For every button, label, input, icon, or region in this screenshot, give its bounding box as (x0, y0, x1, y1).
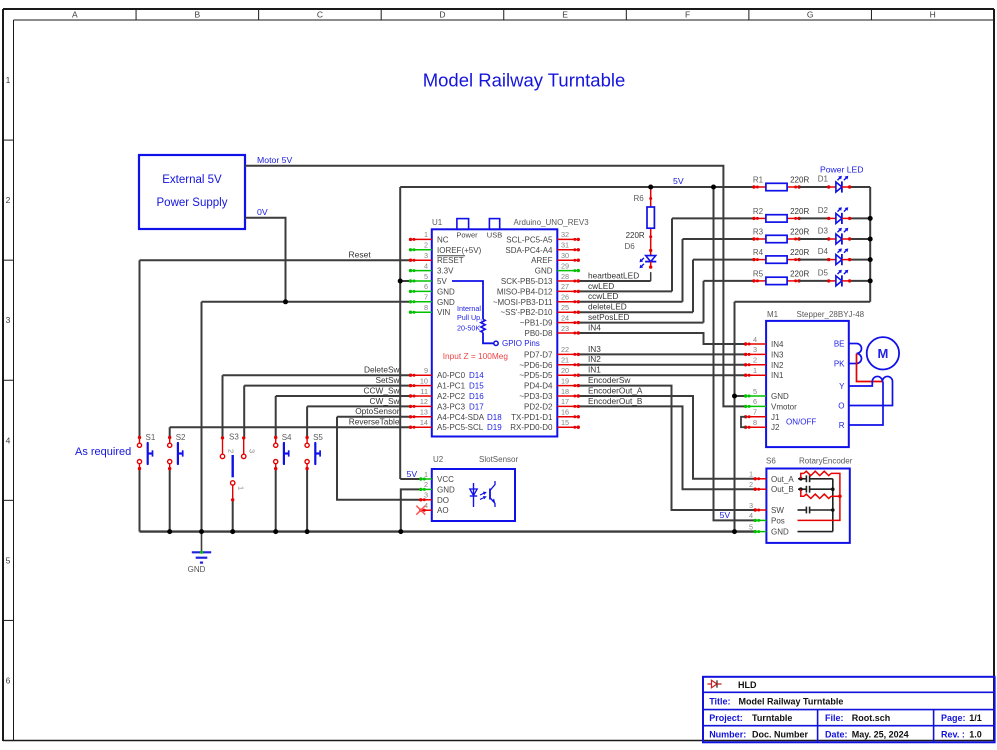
svg-text:IN3: IN3 (771, 350, 784, 359)
svg-text:S4: S4 (282, 433, 292, 442)
svg-text:H: H (930, 10, 936, 20)
svg-text:HLD: HLD (738, 680, 757, 690)
svg-text:Doc. Number: Doc. Number (752, 729, 809, 739)
svg-text:RX-PD0-D0: RX-PD0-D0 (510, 423, 553, 432)
svg-text:SCL-PC5-A5: SCL-PC5-A5 (506, 235, 553, 244)
svg-text:5: 5 (749, 522, 753, 531)
svg-text:R5: R5 (753, 269, 764, 278)
svg-text:A0-PC0: A0-PC0 (437, 371, 466, 380)
svg-text:AREF: AREF (531, 256, 552, 265)
svg-text:GND: GND (535, 267, 553, 276)
svg-text:D5: D5 (818, 268, 829, 277)
svg-text:9: 9 (424, 366, 428, 375)
svg-text:GND: GND (437, 298, 455, 307)
svg-text:S2: S2 (176, 433, 186, 442)
svg-text:A1-PC1: A1-PC1 (437, 382, 466, 391)
svg-text:SCK-PB5-D13: SCK-PB5-D13 (501, 277, 553, 286)
svg-text:D16: D16 (469, 392, 484, 401)
svg-text:~PB1-D9: ~PB1-D9 (520, 319, 553, 328)
svg-text:EncoderOut_A: EncoderOut_A (588, 385, 643, 395)
svg-text:cwLED: cwLED (588, 281, 614, 291)
svg-text:12: 12 (420, 397, 428, 406)
svg-text:2: 2 (424, 241, 428, 250)
svg-text:D1: D1 (818, 175, 829, 184)
svg-text:R2: R2 (753, 207, 764, 216)
svg-text:ON/OFF: ON/OFF (786, 418, 816, 427)
svg-text:IOREF(+5V): IOREF(+5V) (437, 246, 482, 255)
svg-text:Out_B: Out_B (771, 485, 794, 494)
svg-text:Power LED: Power LED (820, 165, 863, 175)
svg-text:18: 18 (561, 387, 569, 396)
svg-text:1: 1 (237, 486, 246, 490)
svg-text:D15: D15 (469, 382, 484, 391)
svg-text:F: F (685, 10, 690, 20)
svg-text:~MOSI-PB3-D11: ~MOSI-PB3-D11 (493, 298, 553, 307)
svg-text:A4-PC4-SDA: A4-PC4-SDA (437, 413, 485, 422)
svg-text:External 5V: External 5V (162, 174, 222, 186)
svg-text:OptoSensor: OptoSensor (355, 406, 400, 416)
svg-text:File:: File: (825, 713, 844, 723)
svg-text:3: 3 (248, 449, 257, 453)
svg-text:IN1: IN1 (771, 371, 784, 380)
svg-text:VCC: VCC (437, 475, 454, 484)
svg-text:4: 4 (749, 511, 753, 520)
svg-text:DO: DO (437, 496, 449, 505)
svg-text:220R: 220R (790, 207, 809, 216)
svg-text:6: 6 (424, 282, 428, 291)
svg-text:CCW_Sw: CCW_Sw (364, 385, 401, 395)
svg-text:220R: 220R (790, 269, 809, 278)
svg-text:S5: S5 (313, 433, 323, 442)
svg-text:4: 4 (753, 335, 757, 344)
svg-text:Date:: Date: (825, 729, 848, 739)
svg-text:PD2-D2: PD2-D2 (524, 402, 553, 411)
svg-text:Turntable: Turntable (752, 713, 792, 723)
svg-text:Pos: Pos (771, 516, 785, 525)
svg-text:GND: GND (771, 392, 789, 401)
svg-text:Title:: Title: (709, 697, 730, 707)
svg-text:2: 2 (227, 449, 236, 453)
svg-text:VIN: VIN (437, 308, 451, 317)
svg-text:22: 22 (561, 345, 569, 354)
svg-text:GND: GND (188, 565, 206, 574)
svg-text:BE: BE (834, 340, 845, 349)
svg-text:3.3V: 3.3V (437, 267, 454, 276)
svg-text:14: 14 (420, 418, 428, 427)
svg-text:C: C (317, 10, 323, 20)
svg-text:0V: 0V (257, 207, 268, 217)
svg-text:PD4-D4: PD4-D4 (524, 382, 553, 391)
svg-text:6: 6 (6, 675, 11, 685)
svg-text:3: 3 (749, 501, 753, 510)
svg-text:D14: D14 (469, 371, 484, 380)
svg-text:5V: 5V (673, 176, 684, 186)
svg-text:R: R (839, 421, 845, 430)
svg-text:D17: D17 (469, 402, 484, 411)
svg-text:SW: SW (771, 506, 784, 515)
svg-text:Page:: Page: (941, 713, 966, 723)
svg-text:4: 4 (424, 261, 428, 270)
svg-text:S1: S1 (146, 433, 156, 442)
svg-text:R4: R4 (753, 248, 764, 257)
svg-text:4: 4 (6, 435, 11, 445)
svg-text:G: G (807, 10, 814, 20)
svg-text:DeleteSw: DeleteSw (364, 365, 401, 375)
svg-text:Reset: Reset (349, 250, 372, 260)
svg-text:5: 5 (424, 272, 428, 281)
svg-text:5: 5 (753, 387, 757, 396)
svg-text:A5-PC5-SCL: A5-PC5-SCL (437, 423, 484, 432)
svg-text:M1: M1 (767, 310, 779, 319)
svg-text:D2: D2 (818, 206, 829, 215)
svg-text:A: A (72, 10, 78, 20)
svg-text:3: 3 (6, 315, 11, 325)
svg-text:E: E (562, 10, 568, 20)
svg-text:Stepper_28BYJ-48: Stepper_28BYJ-48 (797, 310, 865, 319)
svg-text:19: 19 (561, 376, 569, 385)
svg-text:A3-PC3: A3-PC3 (437, 402, 466, 411)
svg-text:7: 7 (424, 293, 428, 302)
svg-text:IN2: IN2 (588, 354, 601, 364)
svg-text:27: 27 (561, 282, 569, 291)
svg-text:8: 8 (424, 303, 428, 312)
svg-text:PK: PK (834, 360, 845, 369)
svg-text:May. 25, 2024: May. 25, 2024 (852, 729, 909, 739)
svg-text:SlotSensor: SlotSensor (479, 455, 518, 464)
svg-text:IN4: IN4 (771, 340, 784, 349)
svg-text:15: 15 (561, 418, 569, 427)
svg-text:PB0-D8: PB0-D8 (524, 329, 553, 338)
svg-text:S3: S3 (229, 433, 239, 442)
svg-text:RotaryEncoder: RotaryEncoder (799, 457, 853, 466)
svg-text:5V: 5V (407, 469, 418, 479)
svg-text:1.0: 1.0 (969, 729, 982, 739)
svg-text:MISO-PB4-D12: MISO-PB4-D12 (497, 287, 553, 296)
svg-text:13: 13 (420, 408, 428, 417)
svg-text:Number:: Number: (709, 729, 746, 739)
svg-text:RESET: RESET (437, 256, 464, 265)
svg-text:IN3: IN3 (588, 344, 601, 354)
svg-text:Power: Power (456, 231, 478, 240)
svg-text:24: 24 (561, 313, 569, 322)
svg-text:SetSw: SetSw (376, 375, 401, 385)
svg-text:1: 1 (424, 230, 428, 239)
svg-text:Motor 5V: Motor 5V (257, 155, 292, 165)
svg-text:29: 29 (561, 261, 569, 270)
svg-text:D: D (439, 10, 445, 20)
svg-text:USB: USB (487, 231, 502, 240)
svg-text:Project:: Project: (709, 713, 743, 723)
svg-text:S6: S6 (766, 457, 776, 466)
svg-text:R1: R1 (753, 176, 764, 185)
svg-text:GND: GND (771, 528, 789, 537)
svg-text:10: 10 (420, 376, 428, 385)
svg-text:2: 2 (424, 480, 428, 489)
svg-text:Out_A: Out_A (771, 475, 794, 484)
svg-text:U1: U1 (432, 218, 443, 227)
svg-text:21: 21 (561, 356, 569, 365)
svg-text:220R: 220R (626, 231, 645, 240)
svg-text:ccwLED: ccwLED (588, 291, 618, 301)
svg-text:TX-PD1-D1: TX-PD1-D1 (511, 413, 553, 422)
svg-text:Input Z = 100Meg: Input Z = 100Meg (443, 351, 509, 361)
svg-text:A2-PC2: A2-PC2 (437, 392, 466, 401)
svg-text:23: 23 (561, 324, 569, 333)
svg-text:5: 5 (6, 555, 11, 565)
svg-text:R3: R3 (753, 228, 764, 237)
svg-text:O: O (838, 402, 844, 411)
svg-text:J2: J2 (771, 423, 780, 432)
svg-text:20: 20 (561, 366, 569, 375)
svg-text:D19: D19 (487, 423, 502, 432)
svg-text:Power Supply: Power Supply (157, 197, 228, 209)
svg-text:30: 30 (561, 251, 569, 260)
svg-text:26: 26 (561, 293, 569, 302)
svg-text:setPosLED: setPosLED (588, 312, 630, 322)
svg-text:11: 11 (420, 387, 428, 396)
svg-text:~SS'-PB2-D10: ~SS'-PB2-D10 (501, 308, 554, 317)
svg-text:1/1: 1/1 (969, 713, 982, 723)
svg-text:M: M (877, 346, 888, 361)
svg-text:3: 3 (424, 251, 428, 260)
svg-text:220R: 220R (790, 176, 809, 185)
svg-text:6: 6 (753, 397, 757, 406)
svg-text:IN1: IN1 (588, 365, 601, 375)
svg-text:1: 1 (749, 470, 753, 479)
svg-text:28: 28 (561, 272, 569, 281)
svg-text:16: 16 (561, 408, 569, 417)
svg-text:GND: GND (437, 485, 455, 494)
svg-text:EncoderSw: EncoderSw (588, 375, 631, 385)
svg-text:IN2: IN2 (771, 361, 784, 370)
svg-text:20-50K: 20-50K (457, 324, 480, 333)
svg-text:D3: D3 (818, 227, 829, 236)
svg-text:heartbeatLED: heartbeatLED (588, 270, 639, 280)
svg-text:5V: 5V (720, 510, 731, 520)
svg-text:NC: NC (437, 235, 449, 244)
svg-text:2: 2 (6, 195, 11, 205)
svg-text:~PD3-D3: ~PD3-D3 (519, 392, 553, 401)
svg-text:D6: D6 (624, 242, 635, 251)
svg-text:D4: D4 (818, 247, 829, 256)
svg-text:31: 31 (561, 241, 569, 250)
svg-text:Internal: Internal (457, 304, 481, 313)
svg-text:Model Railway Turntable: Model Railway Turntable (739, 697, 844, 707)
svg-text:PD7-D7: PD7-D7 (524, 350, 553, 359)
svg-text:Rev. :: Rev. : (941, 729, 965, 739)
svg-text:B: B (195, 10, 201, 20)
svg-text:220R: 220R (790, 228, 809, 237)
svg-text:AO: AO (437, 506, 449, 515)
svg-text:CW_Sw: CW_Sw (370, 396, 401, 406)
svg-text:3: 3 (424, 491, 428, 500)
svg-text:Vmotor: Vmotor (771, 402, 797, 411)
svg-text:17: 17 (561, 397, 569, 406)
svg-text:25: 25 (561, 303, 569, 312)
svg-text:~PD5-D5: ~PD5-D5 (519, 371, 553, 380)
svg-text:5V: 5V (437, 277, 447, 286)
svg-text:ReverseTable: ReverseTable (349, 417, 400, 427)
svg-text:EncoderOut_B: EncoderOut_B (588, 396, 643, 406)
svg-text:IN4: IN4 (588, 322, 601, 332)
svg-text:~PD6-D6: ~PD6-D6 (519, 361, 553, 370)
svg-text:220R: 220R (790, 248, 809, 257)
svg-text:2: 2 (749, 480, 753, 489)
svg-text:SDA-PC4-A4: SDA-PC4-A4 (505, 246, 553, 255)
svg-text:J1: J1 (771, 413, 780, 422)
svg-text:deleteLED: deleteLED (588, 302, 627, 312)
svg-text:1: 1 (6, 75, 11, 85)
svg-text:Root.sch: Root.sch (852, 713, 891, 723)
svg-text:GPIO Pins: GPIO Pins (502, 339, 540, 348)
svg-text:Arduino_UNO_REV3: Arduino_UNO_REV3 (514, 218, 590, 227)
svg-text:D18: D18 (487, 413, 502, 422)
svg-text:As required: As required (75, 446, 131, 458)
svg-text:Pull Up,: Pull Up, (457, 313, 482, 322)
svg-text:2: 2 (753, 356, 757, 365)
svg-text:Model Railway Turntable: Model Railway Turntable (423, 70, 626, 91)
svg-text:U2: U2 (433, 455, 444, 464)
svg-text:3: 3 (753, 345, 757, 354)
svg-text:7: 7 (753, 408, 757, 417)
svg-text:GND: GND (437, 287, 455, 296)
svg-text:32: 32 (561, 230, 569, 239)
svg-text:8: 8 (753, 418, 757, 427)
svg-text:1: 1 (424, 470, 428, 479)
svg-text:Y: Y (839, 382, 845, 391)
svg-text:R6: R6 (633, 194, 644, 203)
svg-text:1: 1 (753, 366, 757, 375)
